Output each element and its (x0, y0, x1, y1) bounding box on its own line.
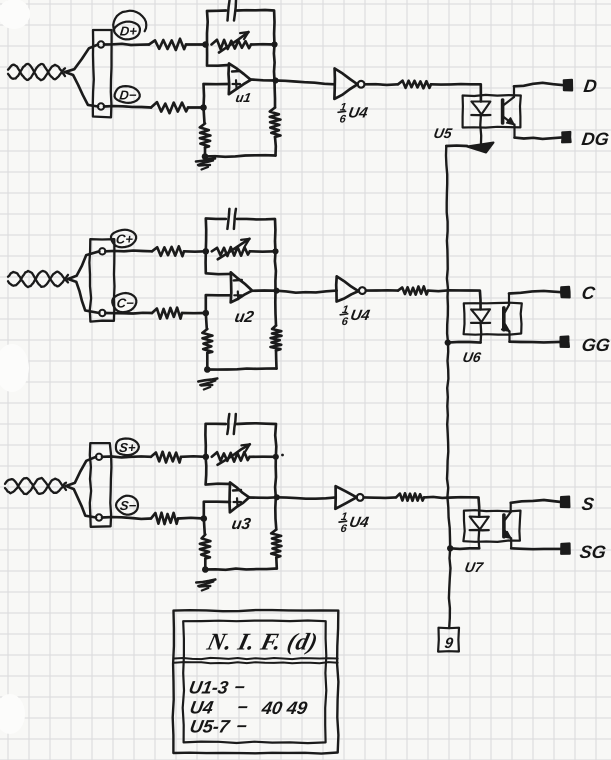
svg-text:GG: GG (580, 335, 611, 355)
wire feedback top (U1) (207, 11, 226, 45)
wire pair to S+ pin (66, 457, 96, 486)
wire U3 output (249, 496, 277, 499)
junction U5 cathode to bus (solder blob) (467, 143, 494, 153)
svg-text:U4: U4 (348, 514, 371, 531)
resistor input S+ (151, 452, 181, 463)
wire U5 emitter to terminal DG (515, 137, 563, 139)
wire D- pin to input resistor (104, 106, 151, 107)
wire pair to S- pin (66, 486, 96, 518)
resistor input S- (151, 513, 178, 524)
svg-text:U5: U5 (432, 125, 453, 141)
resistor input C+ (152, 246, 184, 256)
wire U6 emitter to terminal GG (510, 340, 561, 343)
label C- (112, 293, 136, 312)
title block inner border (183, 621, 327, 744)
pin S+ (96, 454, 102, 460)
resistor S- node to ground (204, 519, 205, 535)
resistor C- node to ground (206, 313, 207, 329)
wire twisted pair input S (5, 478, 66, 494)
resistor divider (U2 output) (275, 351, 278, 369)
svg-text:C−: C− (116, 296, 135, 311)
wire inverter to resistor (channel S) (364, 496, 396, 499)
wire input resistor to node (C-) (182, 312, 206, 315)
wire feedback right vertical (U3) (274, 457, 278, 498)
wire U5 collector to terminal D (514, 83, 564, 87)
capacitor feedback (U1) (228, 1, 230, 21)
ground (channel S) (196, 580, 215, 591)
wire feedback top (U2) (206, 218, 226, 251)
resistor divider (U3 output) (275, 558, 278, 569)
arc over label D+ (113, 11, 146, 32)
svg-text:U4: U4 (347, 104, 370, 121)
pin C- (99, 310, 105, 316)
svg-text:S+: S+ (118, 440, 136, 455)
wire node to U3 non-inverting input (204, 502, 230, 519)
text U1-3 - (187, 678, 229, 698)
potentiometer feedback (U3) (212, 452, 250, 462)
connector 9 (438, 628, 459, 652)
label U7 (463, 559, 485, 575)
svg-text:U4: U4 (188, 698, 214, 718)
wire inverter to resistor (channel D) (365, 83, 398, 86)
node U2 non-inverting input (203, 310, 210, 317)
label D- (115, 86, 140, 103)
pin C+ (99, 248, 105, 254)
label U2 (233, 308, 255, 326)
wire resistor to U7 LED anode (424, 497, 479, 517)
wire C+ pin to input resistor (105, 249, 152, 252)
inverter 1/6 U4 (channel D) (334, 69, 364, 99)
wire ground node to divider (U2) (207, 369, 276, 370)
label 1/6 U4 (channel S) (339, 511, 371, 535)
connector block C (89, 239, 114, 321)
wire U7 collector to terminal S (511, 500, 561, 503)
wire resistor to U5 LED anode (431, 84, 481, 101)
wire node to U1 non-inverting input (204, 84, 230, 108)
node ground (U1) (202, 153, 209, 160)
node pot right (U1) (271, 41, 277, 47)
title text N.I.F. (d) (204, 629, 321, 656)
terminal C (561, 287, 570, 298)
connector block D (93, 30, 112, 117)
svg-text:U4: U4 (349, 307, 372, 324)
optocoupler U7 (463, 503, 520, 549)
svg-text:u1: u1 (234, 90, 252, 105)
wire U6 collector to terminal C (509, 291, 561, 294)
node bus / U6 cathode (445, 339, 451, 345)
wire input resistor to node (C+) (184, 250, 206, 253)
resistor divider (U1 output) (274, 137, 277, 156)
svg-text:DG: DG (580, 129, 610, 149)
node pot right (U2) (272, 248, 278, 254)
svg-text:S−: S− (119, 498, 137, 513)
wire U6 cathode to bus (448, 341, 481, 344)
node U2 output (273, 288, 279, 294)
text U5-7 - (188, 717, 231, 737)
wire input resistor to node (S+) (181, 455, 206, 458)
text U4 - 40 49 (188, 698, 214, 718)
svg-text:C+: C+ (115, 232, 134, 247)
inverter 1/6 U4 (channel S) (335, 486, 363, 509)
wire pair to C- pin (68, 279, 99, 313)
svg-text:u2: u2 (233, 308, 255, 326)
wire U3 output to inverter (277, 497, 336, 498)
label U3 (230, 515, 252, 533)
node ground (U2) (204, 366, 211, 373)
node U2 inverting input (203, 248, 210, 255)
potentiometer feedback (U1) (212, 40, 252, 49)
svg-text:U1-3: U1-3 (187, 678, 229, 698)
wire feedback right vertical (U1) (273, 45, 276, 81)
ground (channel C) (198, 379, 217, 390)
terminal D (564, 80, 573, 91)
svg-text:D+: D+ (119, 24, 138, 39)
node ground (U3) (202, 566, 209, 573)
terminal GG (560, 336, 569, 347)
node U3 inverting input (203, 454, 210, 461)
wire inverter to resistor (channel C) (366, 289, 398, 292)
wire node to U2 inverting input (206, 251, 231, 274)
wire C- pin to input resistor (105, 311, 152, 314)
svg-text:U6: U6 (461, 349, 482, 365)
node U1 output (272, 77, 278, 83)
label U5 (432, 125, 453, 141)
optocoupler U6 (464, 294, 522, 343)
op-amp U3 (230, 483, 250, 513)
pin D- (98, 103, 104, 109)
svg-text:u3: u3 (230, 515, 252, 533)
wire feedback top (U3) (205, 424, 225, 457)
node bus / U7 cathode (447, 545, 453, 551)
wire bus U5 to connector 9 (446, 144, 467, 147)
wire U2 output to inverter (277, 291, 337, 293)
wire twisted pair input D (8, 64, 65, 80)
stray mark near U3 pot node (281, 454, 284, 457)
wire feedback right vertical (U2) (275, 251, 276, 290)
svg-text:D−: D− (119, 88, 138, 103)
op-amp U2 (231, 272, 253, 302)
label S+ (116, 439, 139, 456)
wire U7 emitter to terminal SG (511, 547, 561, 551)
capacitor feedback (U2) (227, 209, 229, 229)
node U3 output (274, 494, 280, 500)
wire input resistor to node (D+) (186, 43, 206, 46)
connector block S (90, 443, 112, 527)
wire ground node to divider (U1) (205, 155, 276, 157)
wire U7 cathode to bus (450, 547, 479, 550)
wire node to U3 inverting input (206, 457, 230, 485)
inverter 1/6 U4 (channel C) (336, 276, 365, 301)
label 1/6 U4 (channel D) (338, 101, 370, 125)
wire S+ pin to input resistor (102, 456, 151, 457)
pin S- (96, 514, 102, 520)
wire pair to D+ pin (65, 45, 98, 73)
resistor input D- (151, 102, 188, 113)
resistor series (channel S) (396, 493, 424, 501)
label S- (116, 496, 138, 515)
wire twisted pair input C (8, 271, 68, 287)
wire U2 output (252, 289, 277, 292)
resistor series (channel D) (398, 81, 431, 89)
terminal SG (561, 543, 570, 554)
label U6 (461, 349, 482, 365)
title block divider (174, 658, 338, 659)
resistor input D+ (149, 39, 186, 50)
ground (channel D) (196, 159, 215, 170)
wire resistor to U6 LED anode (428, 290, 481, 309)
wire U1 output to inverter (276, 81, 335, 85)
terminal S (561, 497, 570, 508)
potentiometer feedback (U2) (212, 247, 250, 256)
wire pair to D- pin (65, 72, 98, 107)
wire pair to C+ pin (68, 251, 99, 279)
wire input resistor to node (D-) (188, 106, 204, 109)
label D+ (114, 22, 140, 40)
svg-text:SG: SG (578, 542, 607, 562)
svg-text:U5-7: U5-7 (188, 717, 231, 737)
title block outer border (173, 610, 339, 754)
pin D+ (98, 41, 104, 47)
wire D+ pin to input resistor (104, 44, 149, 45)
resistor D- node to ground (204, 108, 205, 124)
node U1 non-inverting input (200, 104, 207, 111)
label 1/6 U4 (channel C) (340, 304, 372, 328)
wire U1 output (251, 80, 276, 81)
label C+ (111, 230, 136, 248)
op-amp U1 (229, 64, 251, 95)
optocoupler U5 (463, 86, 521, 146)
node pot right (U3) (273, 454, 279, 460)
resistor series (channel C) (398, 286, 428, 294)
node U1 inverting input (202, 41, 209, 48)
wire node to U2 non-inverting input (206, 295, 231, 313)
node U3 non-inverting input (201, 515, 208, 522)
wire ground node to divider (U3) (205, 569, 276, 570)
resistor input C- (152, 308, 182, 319)
terminal DG (562, 132, 571, 143)
svg-text:40 49: 40 49 (259, 698, 309, 718)
wire node to U1 inverting input (207, 45, 229, 66)
wire S- pin to input resistor (102, 517, 151, 519)
svg-text:N. I. F. (d): N. I. F. (d) (204, 629, 321, 656)
wire input resistor to node (S-) (178, 516, 204, 519)
capacitor feedback (U3) (227, 414, 229, 434)
label U1 (234, 90, 252, 105)
